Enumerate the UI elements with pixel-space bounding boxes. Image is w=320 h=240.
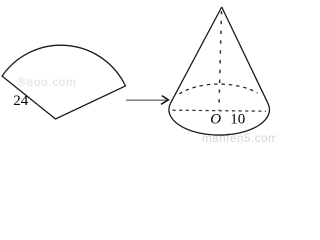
svg-text:®eoo.com: ®eoo.com (18, 77, 77, 89)
svg-text:O: O (210, 112, 221, 128)
svg-text:10: 10 (230, 112, 245, 128)
svg-text:24: 24 (13, 93, 28, 109)
